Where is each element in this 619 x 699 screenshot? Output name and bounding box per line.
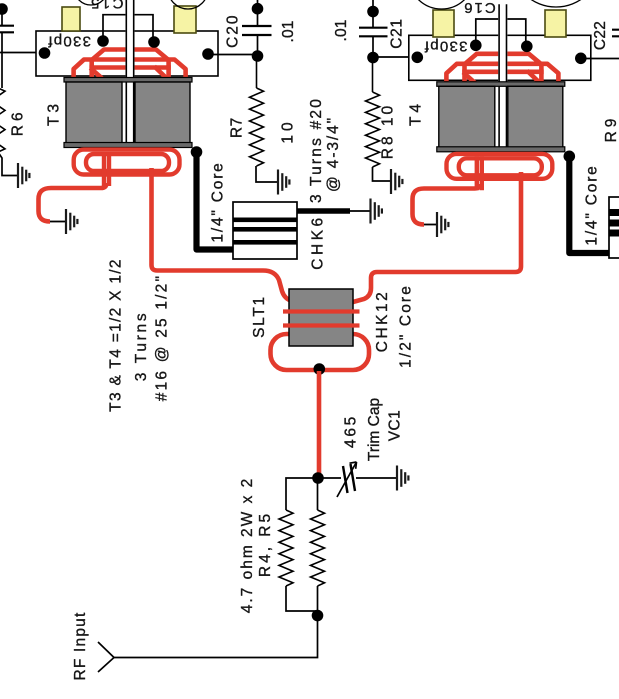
svg-text:@ 4-3/4": @ 4-3/4" xyxy=(325,116,342,192)
ground R7 xyxy=(278,170,289,195)
svg-text:#16 @ 25 1/2": #16 @ 25 1/2" xyxy=(153,274,170,401)
svg-text:C20: C20 xyxy=(225,13,242,47)
ground T3 winding xyxy=(66,209,77,234)
svg-text:4.7 ohm 2W x 2: 4.7 ohm 2W x 2 xyxy=(239,477,256,614)
svg-text:465: 465 xyxy=(343,414,360,448)
resistor R5 xyxy=(317,478,319,510)
wire T4 bar to C22/R9 xyxy=(586,58,619,60)
ground R8 xyxy=(391,169,402,194)
choke CHK6 xyxy=(233,202,297,259)
junction R4/R5 bottom xyxy=(312,610,324,622)
junction left-edge top xyxy=(0,3,8,15)
svg-text:T4: T4 xyxy=(408,100,425,126)
wire (red) T4 winding to ground xyxy=(413,184,481,225)
svg-text:.01: .01 xyxy=(280,21,297,43)
choke CHK12 / SLT1 winding loop xyxy=(271,334,370,370)
svg-text:C21: C21 xyxy=(389,18,406,49)
wire (red) T3 winding to SLT1 xyxy=(152,168,293,301)
wire (red) T4 winding to SLT1 xyxy=(353,172,521,302)
wire (thick) T4 to right choke xyxy=(569,156,609,253)
capacitor C20 .01 xyxy=(257,0,259,55)
svg-text:T3 & T4 =1/2 X 1/2: T3 & T4 =1/2 X 1/2 xyxy=(108,258,125,412)
wire (thick) CHK6 output xyxy=(297,208,350,213)
ground VC1 xyxy=(397,466,408,491)
wire R4/R5 to RF input xyxy=(114,616,318,658)
transistor lead Q-T4-left xyxy=(433,10,454,37)
capacitor C22 (cut at right edge) xyxy=(612,30,619,37)
junction C20/R7 xyxy=(252,50,264,62)
wire T3 bar to C20 xyxy=(208,54,258,56)
svg-text:C22: C22 xyxy=(592,21,609,50)
svg-text:R8 10: R8 10 xyxy=(380,103,397,159)
junction C21 top xyxy=(367,6,379,18)
trim capacitor VC1 xyxy=(318,462,396,497)
svg-text:C15: C15 xyxy=(88,0,123,12)
transistor can Q3 (cut at top) xyxy=(409,0,475,9)
transistor can Q1 (cut at top) xyxy=(74,0,108,5)
svg-text:3 Turns: 3 Turns xyxy=(133,311,150,382)
wire T3 winding ground stem xyxy=(50,221,65,223)
capacitor C21 .01 xyxy=(372,0,374,54)
transistor lead Q-T4-right xyxy=(545,10,566,37)
svg-text:3 Turns #20: 3 Turns #20 xyxy=(308,97,325,203)
svg-text:T3: T3 xyxy=(46,100,63,126)
svg-text:10: 10 xyxy=(280,118,297,143)
svg-text:Trim Cap: Trim Cap xyxy=(366,398,383,461)
svg-text:330pf: 330pf xyxy=(47,33,91,50)
svg-text:SLT1: SLT1 xyxy=(251,295,268,338)
wire (red) T3 winding to ground xyxy=(39,183,107,222)
resistor R8 xyxy=(372,58,374,93)
ground R6 xyxy=(18,163,29,188)
wire (red) SLT1 to VC1 junction xyxy=(317,371,322,475)
wire C21 to T4 bar xyxy=(373,56,417,58)
capacitor C19 (cut at left edge) xyxy=(1,9,3,53)
resistor R6 (cut at left edge) xyxy=(1,53,3,89)
wire R6 to ground xyxy=(0,152,17,176)
transistor can Q4 (cut at top) xyxy=(511,0,601,7)
junction C21/R8 xyxy=(367,52,379,64)
svg-text:R7: R7 xyxy=(229,117,246,138)
choke CHK7 (cut at right edge) xyxy=(609,197,619,258)
transistor lead Q-T3-right xyxy=(174,6,196,33)
svg-text:R4, R5: R4, R5 xyxy=(257,511,274,577)
ground CHK6 xyxy=(371,199,382,224)
transformer T3 xyxy=(36,0,218,186)
ground T4 winding xyxy=(437,212,448,237)
svg-text:CHK6: CHK6 xyxy=(310,214,327,269)
svg-text:CHK12: CHK12 xyxy=(374,290,391,352)
svg-text:VC1: VC1 xyxy=(387,410,404,441)
wire left edge to T3 bar xyxy=(0,52,45,54)
svg-text:.01: .01 xyxy=(333,20,350,42)
resistor R4 xyxy=(286,478,318,510)
RF input terminal arrow xyxy=(98,642,114,672)
svg-text:1/4" Core: 1/4" Core xyxy=(210,161,227,242)
choke CHK12 core xyxy=(289,289,353,346)
wire CHK6 to ground xyxy=(350,210,370,212)
wire (thick) T3 to CHK6 xyxy=(197,152,234,250)
wire T4 winding ground stem xyxy=(424,224,436,226)
svg-text:330pf: 330pf xyxy=(423,38,467,55)
transistor can Q2 (cut at top) xyxy=(168,0,208,9)
resistor R7 xyxy=(256,56,258,88)
svg-text:R9: R9 xyxy=(603,115,619,143)
junction C20 top xyxy=(252,3,264,15)
svg-text:RF Input: RF Input xyxy=(72,611,89,680)
transformer T4 xyxy=(409,4,591,190)
svg-text:R6: R6 xyxy=(10,108,27,136)
CHK12 winding lines xyxy=(283,312,360,326)
junction SLT1 bottom xyxy=(314,363,326,375)
transistor lead Q-T3-left xyxy=(62,7,80,31)
junction VC1 node xyxy=(312,472,324,484)
svg-text:1/4" Core: 1/4" Core xyxy=(584,164,601,245)
svg-text:1/2" Core: 1/2" Core xyxy=(398,284,415,368)
svg-text:C16: C16 xyxy=(462,0,496,16)
